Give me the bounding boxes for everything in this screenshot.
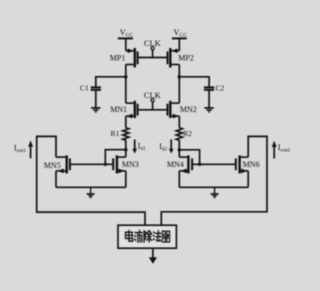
svg-text:MN6: MN6 [243, 160, 260, 169]
svg-text:VCC: VCC [173, 27, 187, 39]
wire MN4 source down [178, 171, 180, 187]
transistor MP2 [168, 48, 194, 68]
wire MN1-MN2 gate line [138, 109, 168, 111]
label fa (char 4) [153, 231, 161, 241]
CLK port bottom bubble [151, 99, 154, 102]
wire node A to C1 [96, 77, 126, 87]
transistor MN4 [167, 155, 192, 173]
svg-text:MN3: MN3 [122, 160, 139, 169]
node B dot [178, 75, 181, 78]
capacitor C2 [204, 84, 225, 108]
ground C1 [91, 108, 100, 112]
svg-text:MP1: MP1 [110, 53, 126, 62]
node D dot [104, 163, 107, 166]
label liu (char 2) [134, 230, 142, 242]
node F dot [198, 163, 201, 166]
wire Vcc2 stub [178, 38, 180, 50]
current arrow Id2 [159, 140, 173, 154]
svg-text:R1: R1 [111, 129, 120, 138]
svg-text:Iout1: Iout1 [14, 144, 27, 155]
wire MP1-MP2 gate line [138, 57, 168, 59]
label chu (char 3) [144, 231, 151, 243]
wire MP2 drain to MN2 drain [178, 65, 180, 104]
wire CLK bottom stub [152, 102, 154, 110]
svg-text:MN4: MN4 [167, 160, 184, 169]
wire MN6 source down [247, 171, 249, 187]
wire MN5 source down [55, 171, 57, 187]
svg-text:C2: C2 [216, 84, 225, 93]
label qi (char 5) [162, 231, 170, 242]
power Vcc left bar [118, 37, 133, 39]
block current divider box [118, 225, 176, 248]
ground left mirror [87, 187, 95, 197]
current arrow Iout1 [14, 140, 33, 158]
wire MN5 drain to output run (left) [37, 136, 145, 225]
wire MN3 source down [125, 171, 127, 187]
svg-text:MP2: MP2 [178, 53, 194, 62]
wire R2 to MN4 drain [178, 140, 180, 157]
wire MN1 source to R1 [125, 116, 127, 128]
label dian (current divider text char 1) [125, 230, 132, 241]
wire R1 to MN3 drain [125, 140, 127, 157]
current arrow Id1 [132, 140, 146, 154]
svg-text:MN1: MN1 [110, 105, 127, 114]
transistor MN3 [113, 155, 139, 173]
svg-text:MN5: MN5 [44, 161, 61, 170]
transistor MN6 [236, 155, 260, 173]
wire Vcc1 stub [125, 38, 127, 50]
ground C2 [204, 108, 213, 112]
wire MP1 drain to MN1 drain [125, 65, 127, 104]
transistor MN1 [110, 101, 137, 119]
wire left mirror source rail [56, 186, 126, 188]
transistor MN2 [168, 101, 197, 119]
wire right mirror source rail [179, 186, 248, 188]
current arrow Iout2 [272, 141, 291, 159]
CLK port top bubble [151, 47, 154, 50]
svg-text:C1: C1 [80, 83, 89, 92]
svg-text:Iout2: Iout2 [278, 143, 291, 154]
capacitor C1 [80, 83, 101, 107]
output arrow of current divider [149, 248, 157, 264]
wire CLK top stub [152, 50, 154, 58]
transistor MN5 [44, 155, 70, 173]
svg-text:R2: R2 [183, 129, 192, 138]
wire MN3 diode link [105, 150, 126, 165]
transistor MP1 [110, 48, 138, 68]
wire node B to C2 [179, 77, 209, 87]
svg-text:VCC: VCC [120, 27, 134, 39]
wire right mirror gate line [192, 163, 236, 165]
ground right mirror [211, 187, 219, 197]
node A dot [124, 75, 127, 78]
wire MN2 source to R2 [178, 116, 180, 128]
wire MN4 diode link [179, 150, 199, 165]
resistor R1 [123, 128, 129, 141]
wire MN6 drain to output run (right) [161, 136, 267, 225]
svg-text:Id1: Id1 [138, 142, 146, 152]
svg-text:MN2: MN2 [180, 105, 197, 114]
wire left mirror gate line [70, 163, 113, 165]
power Vcc right bar [172, 37, 187, 39]
node C dot [124, 148, 127, 151]
resistor R2 [176, 128, 182, 141]
node E dot [178, 148, 181, 151]
svg-text:Id2: Id2 [159, 142, 167, 152]
